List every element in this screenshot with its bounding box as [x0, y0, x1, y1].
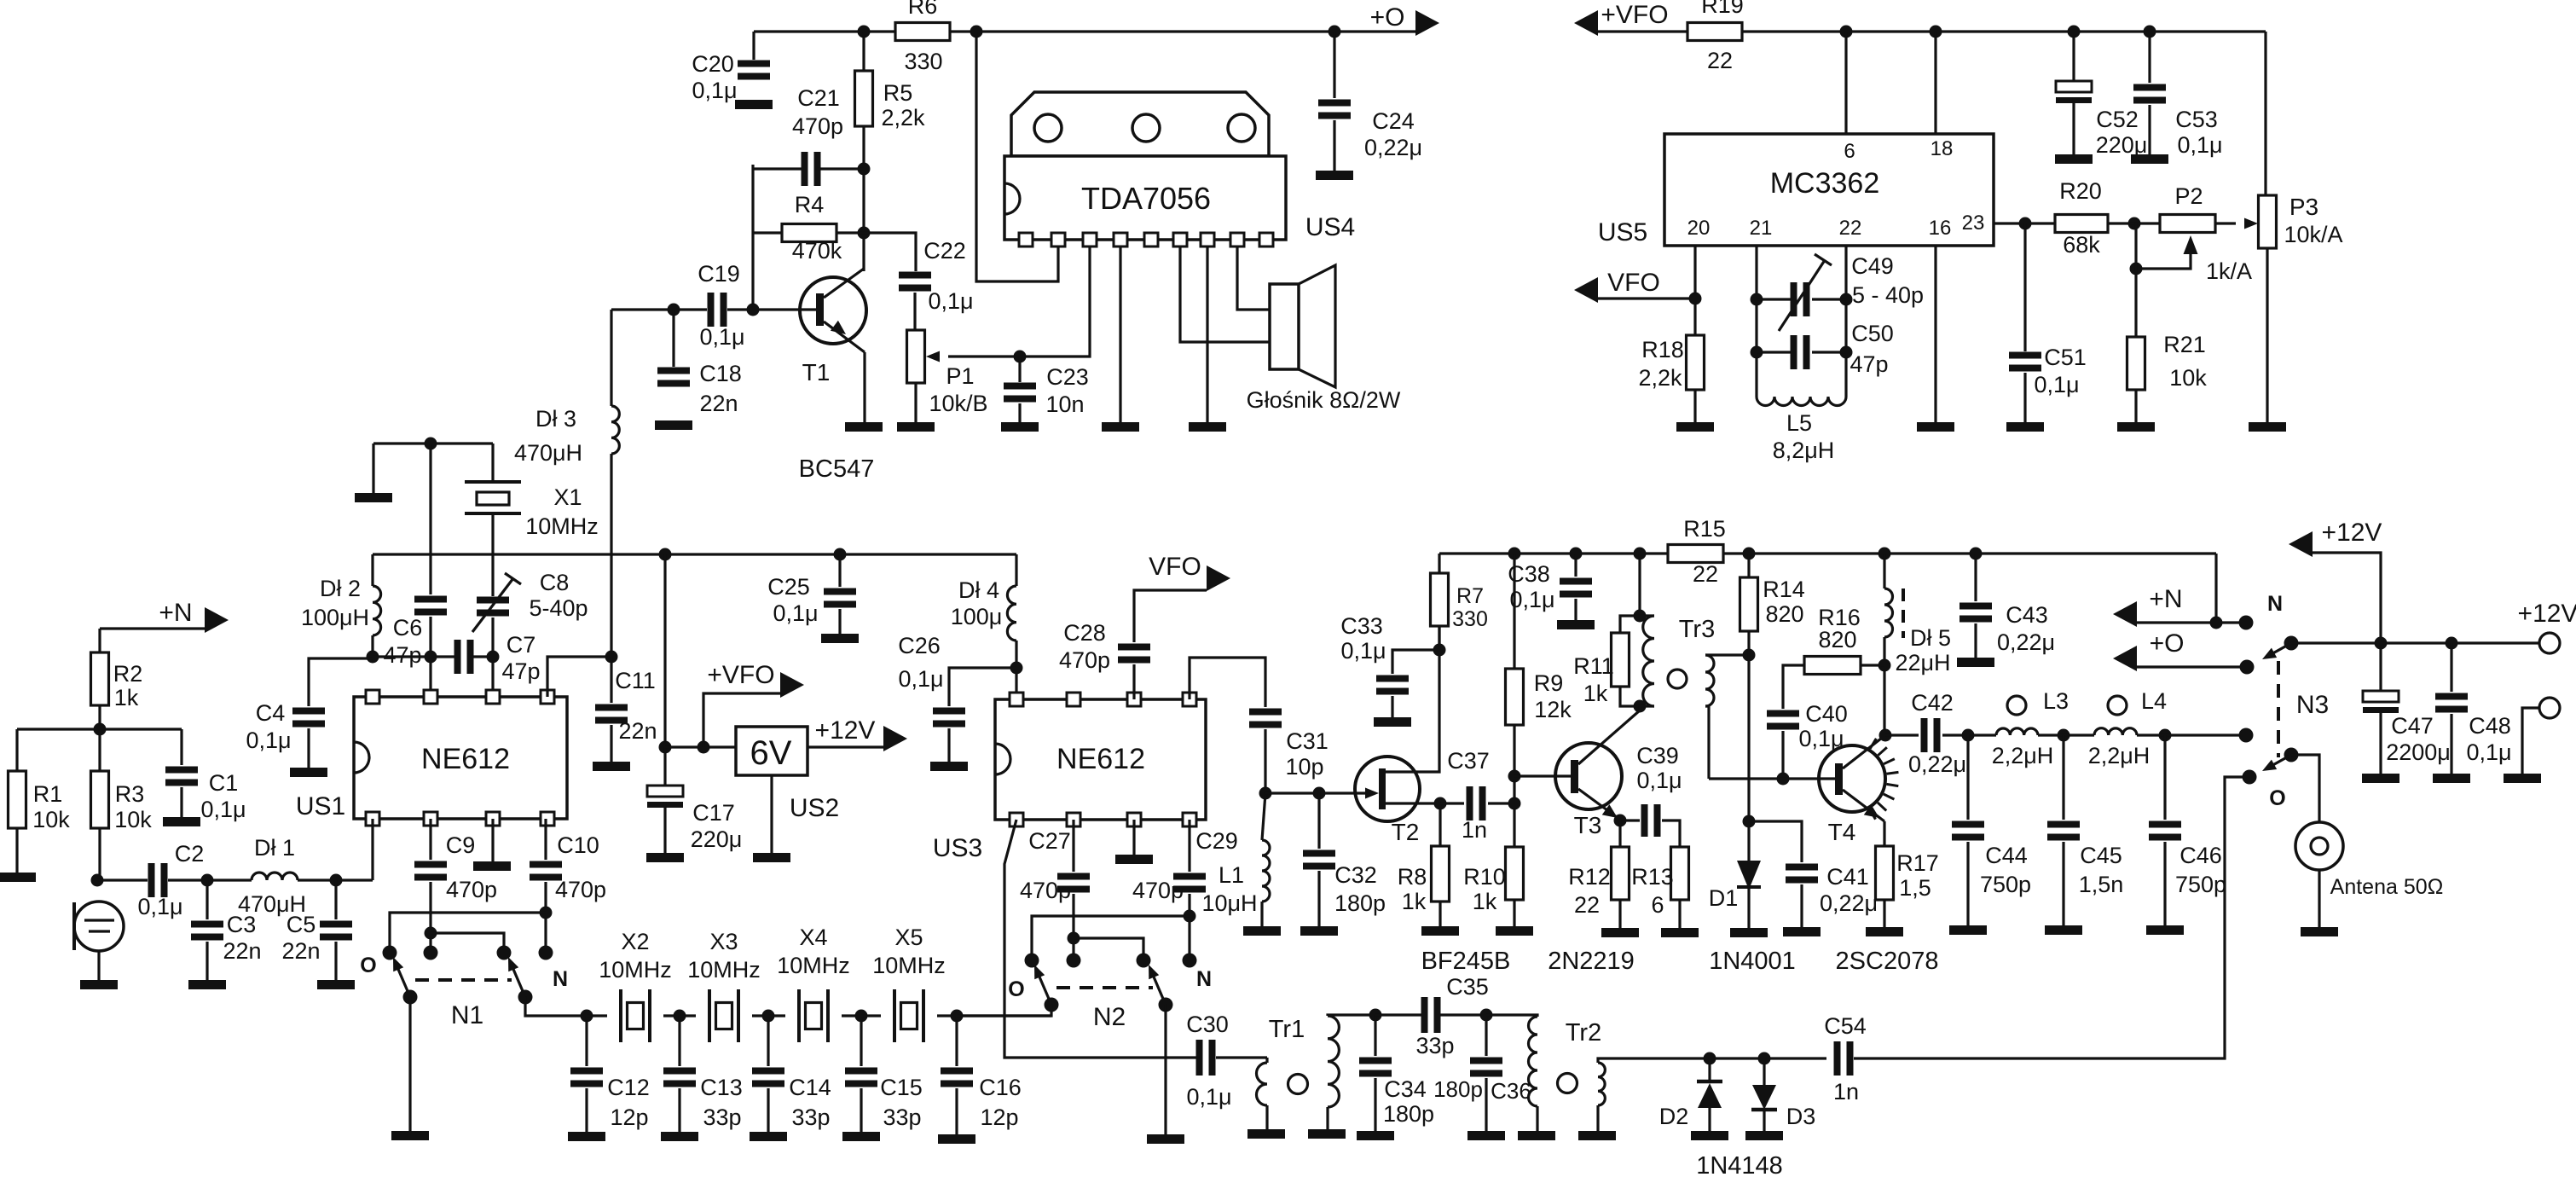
svg-text:TDA7056: TDA7056	[1081, 181, 1211, 216]
svg-text:330: 330	[1452, 607, 1488, 631]
svg-text:R9: R9	[1534, 670, 1564, 696]
wire X1 to C8	[491, 513, 494, 596]
node pin6 rail	[1840, 26, 1853, 38]
speaker Glosnik 8ohm/2W	[1270, 284, 1299, 369]
svg-text:US1: US1	[296, 792, 345, 820]
capacitor C15	[860, 1016, 862, 1066]
capacitor C16	[955, 1016, 958, 1066]
node C35-C36	[1480, 1009, 1493, 1022]
resistor R10	[1506, 847, 1524, 900]
node Dl4-C26	[1010, 662, 1023, 675]
svg-text:1k: 1k	[1402, 889, 1427, 914]
svg-text:VFO: VFO	[1149, 553, 1201, 581]
trimmer capacitor C49	[1757, 298, 1794, 300]
svg-text:C16: C16	[979, 1075, 1022, 1100]
svg-text:23: 23	[1962, 212, 1985, 235]
svg-text:12k: 12k	[1534, 697, 1572, 722]
svg-text:0,22μ: 0,22μ	[1908, 751, 1966, 777]
capacitor C24	[1333, 32, 1335, 98]
switch N2 gang dashed link	[1056, 986, 1153, 989]
svg-text:8,2μH: 8,2μH	[1773, 438, 1835, 463]
node rail-Tr3	[1634, 548, 1647, 560]
arrow +VFO feed	[1574, 10, 1598, 36]
capacitor C30	[1196, 1040, 1203, 1076]
svg-text:R19: R19	[1701, 0, 1744, 18]
capacitor C42	[1885, 733, 1919, 736]
svg-text:C21: C21	[797, 85, 840, 111]
capacitor C37	[1440, 802, 1464, 804]
supply rail +12V mid	[1439, 552, 2216, 554]
svg-text:220μ: 220μ	[2096, 132, 2148, 158]
node T4 collector	[1879, 729, 1892, 742]
switch N2 right arm	[1159, 998, 1173, 1012]
svg-text:C18: C18	[699, 361, 742, 386]
wire P1 to ground	[914, 383, 917, 422]
node X2-X3	[674, 1010, 686, 1023]
capacitor C38	[1574, 554, 1577, 577]
switch N1 right arm	[518, 990, 533, 1005]
wire C5 node to US1 pin1	[371, 819, 373, 880]
capacitor C31	[1249, 709, 1282, 716]
node +N corner	[2210, 617, 2223, 629]
capacitor C54	[1834, 1041, 1841, 1076]
node R8-C37	[1434, 797, 1447, 810]
pin US1 bot4	[541, 812, 554, 826]
capacitor C27	[1072, 820, 1074, 872]
svg-text:R6: R6	[908, 0, 938, 19]
svg-text:470p: 470p	[446, 877, 497, 902]
wire P2 to P3 wiper	[2215, 222, 2236, 224]
svg-text:Dł 2: Dł 2	[320, 576, 361, 601]
capacitor C7	[454, 640, 461, 674]
resistor R9	[1513, 554, 1515, 669]
svg-text:C4: C4	[256, 700, 286, 726]
potentiometer P2	[2160, 215, 2215, 233]
switch N3 contact O	[2243, 770, 2257, 785]
arrow +N out	[100, 627, 205, 629]
node C32	[1313, 787, 1326, 800]
arrow VFO out	[1207, 565, 1230, 591]
node C40-base	[1777, 773, 1790, 786]
capacitor C51	[2023, 223, 2026, 351]
wire oscillator top link	[373, 442, 493, 444]
node rail-C20	[752, 32, 755, 60]
svg-text:C32: C32	[1334, 862, 1377, 888]
resistor R7	[1438, 554, 1440, 573]
arrow +12V feed	[2289, 531, 2313, 557]
svg-text:C22: C22	[923, 238, 966, 264]
svg-text:NE612: NE612	[421, 743, 510, 775]
pin US3 bot3	[1127, 813, 1141, 826]
resistor R16	[1861, 664, 1884, 666]
wire T2 gate	[1265, 791, 1367, 794]
resistor R18	[1687, 335, 1705, 390]
wire R9-R10 column	[1513, 725, 1515, 847]
bias node line	[17, 728, 182, 730]
switch N1 contact N	[539, 946, 553, 960]
wire pin 22	[1844, 246, 1847, 397]
pin US3 top4	[1183, 693, 1196, 706]
wire R4 node to C22	[864, 233, 916, 271]
mounting hole 3	[1228, 114, 1255, 142]
svg-text:+VFO: +VFO	[1601, 1, 1668, 29]
svg-text:C37: C37	[1447, 748, 1490, 774]
switch N2 contact O	[1025, 954, 1039, 968]
node C9 tap	[425, 927, 437, 940]
svg-text:22: 22	[1839, 217, 1862, 240]
node D3	[1758, 1052, 1771, 1065]
svg-text:Tr2: Tr2	[1566, 1019, 1601, 1047]
svg-text:D2: D2	[1659, 1104, 1689, 1129]
pin 4 US4	[1114, 233, 1127, 246]
wire R19 to MC3362 supply	[1742, 30, 2266, 32]
node filter in	[581, 1010, 593, 1023]
svg-text:22: 22	[1693, 561, 1718, 587]
capacitor C22	[899, 272, 931, 279]
arrow +N receive supply	[2113, 601, 2137, 627]
capacitor C41	[1749, 821, 1802, 862]
node C29-O wire	[1184, 910, 1196, 923]
svg-text:R14: R14	[1763, 577, 1805, 602]
svg-text:C24: C24	[1372, 108, 1415, 134]
resistor R13	[1671, 847, 1689, 900]
svg-text:Dł 1: Dł 1	[254, 835, 295, 861]
svg-text:33p: 33p	[1415, 1033, 1454, 1058]
IC US3 NE612	[995, 699, 1206, 820]
svg-text:T3: T3	[1574, 812, 1602, 838]
pin 8 US4	[1230, 233, 1244, 246]
node X5-C16	[951, 1010, 964, 1023]
svg-text:0,22μ: 0,22μ	[1997, 629, 2055, 655]
svg-text:N: N	[553, 967, 568, 991]
svg-text:X3: X3	[709, 929, 738, 954]
svg-text:0,1μ: 0,1μ	[137, 894, 182, 919]
wire T1 emitter to ground	[863, 352, 865, 422]
transformer Tr3 secondary	[1705, 655, 1714, 706]
svg-text:P1: P1	[946, 363, 974, 389]
resistor R19	[1687, 23, 1742, 41]
capacitor C46	[2163, 735, 2166, 820]
arrow +O transmit supply	[2113, 646, 2137, 671]
capacitor C23	[1018, 357, 1021, 382]
node C3	[201, 874, 214, 887]
svg-text:330: 330	[904, 49, 942, 74]
svg-text:1,5n: 1,5n	[2079, 872, 2124, 897]
capacitor C48	[2450, 643, 2452, 692]
node R5-C21	[858, 163, 871, 176]
svg-text:C12: C12	[607, 1075, 650, 1100]
capacitor C39	[1620, 819, 1640, 821]
pin US1 top1	[366, 690, 379, 704]
switch N3 contact LPF	[2239, 728, 2254, 743]
capacitor C2	[97, 878, 148, 881]
svg-text:2,2k: 2,2k	[1638, 365, 1682, 391]
node R7-C33	[1433, 644, 1446, 657]
svg-text:R15: R15	[1683, 516, 1726, 542]
capacitor C25	[838, 554, 841, 587]
pin 7 US4	[1201, 233, 1214, 246]
transformer Tr3 primary	[1640, 614, 1654, 617]
node C18	[668, 304, 680, 316]
node C8 line	[487, 651, 500, 664]
node Tr3-R14	[1743, 649, 1756, 662]
arrow +12V into US2	[808, 745, 883, 748]
node D2	[1704, 1052, 1716, 1065]
resistor R3	[98, 729, 101, 771]
pin US1 bot2	[424, 812, 437, 826]
node pin23-C51	[2019, 217, 2032, 230]
node pin18 rail	[1930, 26, 1942, 38]
pin 9 US4	[1259, 233, 1273, 246]
wire C17 column	[663, 554, 666, 747]
svg-text:10k: 10k	[114, 807, 152, 832]
svg-text:0,1μ: 0,1μ	[2034, 372, 2079, 397]
svg-text:5-40p: 5-40p	[529, 595, 588, 621]
transformer Tr1 core	[1288, 1075, 1308, 1094]
node +12V C48	[2446, 637, 2458, 650]
svg-text:C33: C33	[1340, 613, 1383, 639]
node rail-R9	[1508, 548, 1521, 560]
capacitor C17 electrolytic	[647, 786, 683, 797]
svg-text:2200μ: 2200μ	[2386, 739, 2451, 765]
resistor R15	[1668, 545, 1723, 563]
node C6 line	[425, 651, 437, 664]
pin US3 top3	[1127, 693, 1141, 706]
node R9-base	[1508, 770, 1521, 783]
wire rail right end down	[2214, 554, 2217, 623]
node C31-L1-gate	[1259, 787, 1272, 800]
capacitor C34	[1374, 1015, 1376, 1056]
svg-text:T4: T4	[1828, 819, 1856, 845]
wire O contact riser	[390, 913, 546, 953]
svg-text:N1: N1	[451, 1001, 483, 1029]
capacitor C21	[753, 167, 805, 170]
supply rail 6V mid	[373, 553, 1016, 555]
svg-text:C13: C13	[700, 1075, 743, 1100]
capacitor C43	[1974, 554, 1977, 601]
svg-text:C26: C26	[898, 633, 941, 658]
capacitor C9	[429, 819, 431, 860]
svg-text:C17: C17	[692, 800, 735, 826]
svg-text:C44: C44	[1985, 843, 2028, 868]
pin US1 top2	[424, 690, 437, 704]
node C27 tap	[1068, 932, 1080, 945]
node D1-C41	[1743, 815, 1756, 828]
svg-text:C14: C14	[789, 1075, 831, 1100]
svg-text:750p: 750p	[2175, 872, 2226, 897]
node C42-C44	[1962, 729, 1975, 742]
capacitor C36	[1485, 1015, 1487, 1056]
svg-text:N: N	[1196, 967, 1212, 991]
resistor R11	[1620, 616, 1640, 633]
capacitor C33	[1392, 650, 1439, 674]
svg-text:0,1μ: 0,1μ	[928, 288, 973, 314]
svg-text:0,1μ: 0,1μ	[773, 600, 818, 626]
crystal X3	[680, 1014, 696, 1017]
capacitor C29	[1188, 820, 1190, 872]
transistor T1 BC547	[800, 277, 866, 344]
svg-text:C52: C52	[2096, 107, 2139, 132]
svg-text:O: O	[360, 954, 376, 977]
crystal X4	[768, 1014, 785, 1017]
svg-text:C6: C6	[393, 615, 423, 641]
wire L3-L4	[2038, 733, 2094, 736]
svg-text:2SC2078: 2SC2078	[1836, 948, 1939, 975]
arrow VFO input	[1574, 277, 1598, 303]
svg-text:P3: P3	[2289, 194, 2318, 220]
svg-text:5 - 40p: 5 - 40p	[1852, 282, 1924, 308]
transformer Tr3 core	[1668, 670, 1687, 688]
wire osc feedback line	[373, 655, 458, 658]
wire N2 O contact riser	[1032, 916, 1190, 960]
svg-text:MC3362: MC3362	[1770, 167, 1880, 200]
transformer Tr2 primary	[1486, 1015, 1537, 1017]
pin US3 bot1	[1010, 813, 1023, 826]
svg-text:180p: 180p	[1334, 890, 1386, 916]
wire T2 source to R8	[1386, 802, 1440, 804]
terminal 0V	[2539, 698, 2560, 718]
svg-text:C54: C54	[1824, 1013, 1867, 1039]
svg-text:US5: US5	[1598, 218, 1647, 246]
node +VFO tap	[698, 741, 710, 754]
capacitor C28	[1132, 664, 1135, 699]
capacitor C20	[738, 61, 770, 67]
svg-text:+VFO: +VFO	[707, 661, 774, 689]
svg-text:+12V: +12V	[2322, 519, 2382, 547]
wire T2 drain to R7	[1386, 626, 1439, 772]
node X4-X5	[855, 1010, 868, 1023]
pin 5 US4	[1144, 233, 1158, 246]
svg-text:1N4148: 1N4148	[1696, 1152, 1783, 1177]
svg-text:22μH: 22μH	[1895, 650, 1950, 675]
transistor T2 BF245B JFET	[1355, 757, 1420, 821]
pin US1 top4	[541, 690, 554, 704]
wire C27 to contact 3	[1074, 938, 1143, 960]
svg-text:10k/A: 10k/A	[2284, 222, 2342, 247]
switch N1 contact 3	[497, 946, 512, 960]
svg-text:BC547: BC547	[799, 455, 875, 483]
svg-text:C23: C23	[1046, 364, 1089, 390]
capacitor C35	[1375, 1013, 1421, 1016]
svg-text:820: 820	[1765, 601, 1803, 627]
svg-text:22n: 22n	[223, 938, 261, 964]
capacitor C11	[610, 657, 612, 703]
svg-text:10k/B: 10k/B	[929, 391, 987, 416]
svg-text:C48: C48	[2469, 713, 2511, 739]
svg-text:X2: X2	[621, 929, 649, 954]
node C17 top	[659, 741, 672, 754]
svg-text:C8: C8	[540, 570, 570, 595]
svg-text:C28: C28	[1063, 620, 1106, 646]
wire R14 to D1	[1747, 631, 1750, 861]
svg-text:1N4001: 1N4001	[1709, 948, 1796, 975]
svg-text:22: 22	[1707, 48, 1733, 73]
switch N3 contact +O	[2240, 660, 2255, 675]
resistor R12	[1618, 820, 1621, 847]
node P2 wiper-R21	[2130, 263, 2143, 275]
svg-text:C1: C1	[209, 770, 239, 796]
svg-text:C25: C25	[767, 574, 810, 600]
transformer Tr2 secondary	[1598, 1063, 1605, 1105]
P2 wiper	[2136, 253, 2191, 269]
node R2-R3	[94, 723, 107, 736]
svg-text:0,22μ: 0,22μ	[1364, 135, 1422, 160]
pin US1 bot3	[486, 812, 500, 826]
wire R5 bottom to T1 collector node	[862, 126, 865, 271]
node L3-L4	[2058, 729, 2070, 742]
IC US4 TDA7056 body	[1004, 156, 1286, 240]
svg-text:R11: R11	[1573, 653, 1614, 679]
svg-text:1n: 1n	[1462, 817, 1487, 843]
svg-text:L1: L1	[1219, 862, 1244, 888]
svg-text:2,2μH: 2,2μH	[1992, 743, 2054, 768]
switch N3 gang dashed link	[2277, 661, 2280, 757]
capacitor C10	[544, 819, 547, 860]
wire C17 to US2	[665, 745, 736, 748]
svg-text:C2: C2	[175, 841, 205, 867]
potentiometer P3	[2264, 32, 2266, 195]
resistor R14	[1747, 554, 1750, 577]
svg-text:16: 16	[1929, 217, 1952, 240]
svg-text:0,1μ: 0,1μ	[2177, 132, 2222, 158]
svg-text:US2: US2	[790, 794, 839, 822]
svg-text:470p: 470p	[1020, 878, 1071, 903]
terminal +12V	[2539, 633, 2560, 653]
crystal X1 10MHz	[491, 444, 494, 482]
svg-text:C35: C35	[1446, 974, 1489, 1000]
svg-text:0,1μ: 0,1μ	[246, 728, 291, 753]
svg-text:C15: C15	[880, 1075, 923, 1100]
switch N1 contact O	[383, 946, 397, 960]
capacitor C1	[180, 729, 182, 765]
svg-text:68k: 68k	[2063, 232, 2100, 258]
svg-text:10k: 10k	[2169, 365, 2207, 391]
node +12V C47	[2375, 637, 2388, 650]
switch N2 contact 2	[1067, 954, 1081, 968]
svg-text:1k: 1k	[114, 685, 139, 710]
svg-text:Tr1: Tr1	[1269, 1016, 1305, 1043]
capacitor C44	[1966, 735, 1969, 820]
capacitor C50	[1757, 351, 1794, 353]
svg-text:C31: C31	[1286, 728, 1329, 754]
switch N3 lower pole	[2284, 748, 2299, 762]
wire Tr2 out to C54	[1598, 1058, 1826, 1063]
svg-text:2,2μH: 2,2μH	[2088, 743, 2151, 768]
svg-text:R2: R2	[113, 661, 143, 687]
svg-text:R21: R21	[2163, 332, 2206, 357]
svg-text:T2: T2	[1392, 819, 1420, 845]
svg-text:2,2k: 2,2k	[881, 105, 925, 130]
svg-text:1k: 1k	[1583, 681, 1608, 706]
svg-text:0,1μ: 0,1μ	[1509, 587, 1554, 612]
svg-text:470μH: 470μH	[514, 440, 582, 466]
wire N3 lower pole to antenna	[2291, 755, 2319, 822]
switch N1 contact 2	[424, 946, 438, 960]
inductor L3 2.2uH	[1996, 728, 2038, 735]
svg-text:N: N	[2267, 592, 2283, 616]
svg-text:R4: R4	[795, 192, 825, 217]
svg-text:C19: C19	[698, 261, 740, 287]
svg-text:0,1μ: 0,1μ	[1340, 638, 1386, 664]
wire US3 pin3 ground	[1132, 820, 1135, 855]
transformer Tr1 primary	[1265, 1058, 1268, 1063]
svg-text:0,22μ: 0,22μ	[1820, 890, 1878, 916]
svg-text:+O: +O	[1370, 3, 1405, 32]
node R11 top	[1634, 610, 1647, 623]
pin 3 US4	[1083, 233, 1097, 246]
svg-text:R5: R5	[883, 80, 913, 106]
svg-text:12p: 12p	[980, 1105, 1018, 1130]
